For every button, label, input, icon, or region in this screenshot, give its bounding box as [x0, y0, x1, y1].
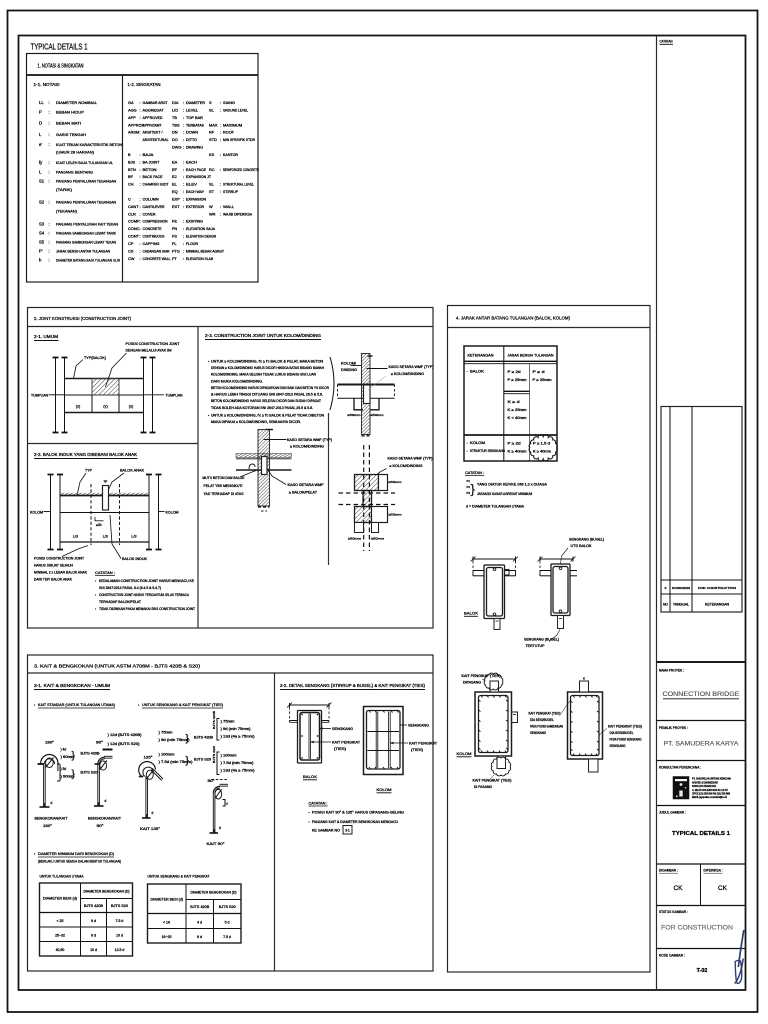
balok section 3-2 kait leader	[311, 741, 331, 743]
svg-text:≥50mm: ≥50mm	[371, 413, 385, 417]
column section right top protrusion	[580, 681, 589, 692]
svg-text:STATUS GAMBAR :: STATUS GAMBAR :	[659, 910, 688, 914]
svg-text::: :	[49, 170, 50, 175]
svg-text::: :	[183, 122, 184, 127]
svg-text:KOLOM/DINDING, MAKA SELISIH TE: KOLOM/DINDING, MAKA SELISIH TEGAK LURUS …	[211, 373, 317, 377]
svg-text:FOR CONSTRUCTION: FOR CONSTRUCTION	[698, 586, 736, 590]
balok section 3-2 sengkang leader	[320, 728, 332, 730]
svg-text::: :	[183, 196, 184, 201]
beam side dashes	[337, 385, 339, 399]
svg-text::: :	[140, 152, 141, 157]
svg-text:EMAIL jagopelan.consultant@co.: EMAIL jagopelan.consultant@co.id	[692, 795, 727, 799]
svg-text:P ≥ 2d: P ≥ 2d	[508, 442, 521, 446]
revision table columns	[669, 407, 671, 613]
svg-text:•: •	[208, 360, 209, 364]
svg-text::: :	[49, 110, 50, 115]
svg-text:d: d	[152, 811, 154, 815]
svg-text:CATATAN: CATATAN	[660, 40, 673, 44]
svg-text:BETON KOLOM/DINDING HARUS SELE: BETON KOLOM/DINDING HARUS SELESAI DICOR …	[211, 399, 321, 403]
svg-text:BJTS S20: BJTS S20	[111, 904, 128, 908]
svg-text::: :	[183, 248, 184, 253]
svg-text::: :	[140, 174, 141, 179]
svg-text::: :	[220, 189, 221, 194]
svg-text:TYP(BALOK): TYP(BALOK)	[84, 356, 106, 360]
svg-text:135°: 135°	[144, 756, 154, 760]
svg-text:TIDAK DIIJINKAN PAKAI MEMAKAI: TIDAK DIIJINKAN PAKAI MEMAKAI SBG CONSTR…	[99, 607, 195, 611]
svg-text:LID: LID	[172, 107, 178, 112]
svg-text:W: W	[209, 204, 213, 209]
svg-text:25~32: 25~32	[55, 933, 65, 937]
svg-text:K: K	[583, 677, 585, 681]
svg-text::: :	[183, 241, 184, 246]
svg-text::: :	[140, 256, 141, 261]
svg-text::: :	[49, 239, 50, 244]
detail 2-1 right support	[143, 357, 145, 433]
svg-text:CK: CK	[674, 885, 684, 892]
column section right stirrup	[571, 696, 600, 756]
svg-text:JARAK BERSIH ANTAR TULANGAN: JARAK BERSIH ANTAR TULANGAN	[56, 249, 110, 254]
detail 2-1 beam lines	[65, 378, 144, 380]
beam top thick line	[338, 384, 395, 386]
svg-text:MUTU BETON DAN BALOK: MUTU BETON DAN BALOK	[203, 476, 246, 480]
title block left divider	[656, 36, 658, 991]
svg-text::: :	[183, 115, 184, 120]
svg-text:STRUKTUR SENGKANG: STRUKTUR SENGKANG	[470, 449, 505, 453]
svg-text::: :	[140, 211, 141, 216]
svg-text:(x): (x)	[76, 405, 81, 409]
svg-text:CAPPING: CAPPING	[143, 242, 160, 246]
balok section 3-2 dashed edges	[289, 707, 291, 722]
svg-text:6 d: 6 d	[91, 919, 96, 923]
svg-text:REINFORCED CONCRETE: REINFORCED CONCRETE	[223, 168, 259, 172]
beam section left hook attachment	[505, 570, 510, 576]
svg-text:WAJIB DIPERIKSA: WAJIB DIPERIKSA	[223, 212, 252, 216]
svg-text:P: P	[39, 110, 42, 115]
svg-text:EXT: EXT	[172, 204, 180, 209]
svg-text:0: 0	[665, 586, 667, 590]
svg-text:KUAT LELEH BAJA TULANGAN UL: KUAT LELEH BAJA TULANGAN UL	[56, 160, 114, 165]
svg-text::: :	[220, 204, 221, 209]
hook 90 ties brackets	[223, 800, 226, 807]
consultant logo	[673, 777, 689, 800]
svg-text:LEVEL: LEVEL	[186, 108, 198, 112]
svg-text:TERBATAS: TERBATAS	[186, 123, 205, 127]
column section left bottom protrusion	[497, 756, 506, 769]
svg-text:BETON: BETON	[143, 168, 157, 172]
svg-text:•: •	[467, 441, 468, 445]
svg-text:b: b	[105, 480, 107, 484]
beam section left stirrup	[487, 568, 503, 617]
beam section left dim line	[473, 558, 516, 560]
column bottom dashes	[362, 435, 371, 437]
svg-text:KETERANGAN: KETERANGAN	[705, 603, 730, 607]
svg-text:JL. MELATI RAYA KEBAYORAN NO.: JL. MELATI RAYA KEBAYORAN NO. 128 JKT	[692, 788, 728, 792]
svg-text:1-2. SINGKATAN: 1-2. SINGKATAN	[128, 82, 161, 87]
panel 2 header line	[28, 326, 434, 328]
svg-text:S1: S1	[39, 178, 45, 183]
svg-text:RC: RC	[209, 167, 215, 172]
svg-text:K ≥ d: K ≥ d	[508, 400, 520, 404]
svg-text:B: B	[128, 152, 131, 157]
svg-text:ARSITEKTURAL: ARSITEKTURAL	[143, 138, 169, 142]
svg-text:OFFICE (021) 5550 8899 FAX (02: OFFICE (021) 5550 8899 FAX (021) 5550 88…	[692, 791, 730, 795]
svg-text:CONC: CONC	[128, 226, 140, 231]
svg-text:DIAMETER BENGKOKAN (D): DIAMETER BENGKOKAN (D)	[191, 890, 237, 894]
svg-text:DN: DN	[172, 130, 178, 135]
svg-text:KASO SETARA WMF (TYP): KASO SETARA WMF (TYP)	[287, 438, 332, 442]
svg-text:BJTS S20: BJTS S20	[81, 771, 98, 775]
svg-text::: :	[49, 121, 50, 126]
svg-text:≥50mm: ≥50mm	[389, 480, 403, 484]
svg-text:≥2b: ≥2b	[96, 523, 102, 527]
svg-text:EXPANSION: EXPANSION	[186, 197, 206, 201]
column section left stirrup	[479, 696, 509, 753]
svg-text:01/06/2023: 01/06/2023	[672, 586, 690, 590]
kolom section 3-2 sengkang leader	[400, 724, 407, 726]
svg-text:d = DIAMETER TULANGAN UTAMA: d = DIAMETER TULANGAN UTAMA	[466, 505, 525, 509]
svg-text:SENGKANG: SENGKANG	[332, 727, 353, 731]
svg-text:PANJANG SAMBUNGAN LEWAT TARIK: PANJANG SAMBUNGAN LEWAT TARIK	[56, 231, 116, 236]
svg-text:< 16: < 16	[163, 920, 170, 924]
svg-text:DIAMETER BATANG BAJA TULANGAN: DIAMETER BATANG BAJA TULANGAN ULIR	[56, 258, 120, 263]
plan bottom right white rect	[372, 507, 388, 523]
svg-text:CW: CW	[128, 256, 135, 261]
svg-text:(x): (x)	[129, 405, 134, 409]
svg-text:PADA POSISI SENGKANG: PADA POSISI SENGKANG	[610, 738, 642, 742]
svg-text:DIA BESI/BUGEL: DIA BESI/BUGEL	[610, 731, 634, 735]
svg-text:SENGKANG: SENGKANG	[530, 731, 546, 735]
svg-text:UNTUK TULANGAN UTAMA: UNTUK TULANGAN UTAMA	[40, 875, 84, 879]
svg-text:KASO SETARA WMF (TYP): KASO SETARA WMF (TYP)	[388, 457, 433, 461]
hook 180 vertical bar	[43, 764, 45, 807]
svg-text:90°: 90°	[208, 779, 216, 783]
svg-text:≥ KOLOM/DINDING: ≥ KOLOM/DINDING	[390, 464, 423, 468]
svg-text::: :	[183, 167, 184, 172]
svg-text:MINIMAL BESAR AGRGT: MINIMAL BESAR AGRGT	[186, 249, 225, 253]
svg-text:BJTS 420B: BJTS 420B	[190, 905, 210, 909]
svg-text::: :	[140, 130, 141, 135]
svg-text:TERTUTUP: TERTUTUP	[526, 644, 546, 648]
svg-text:KS: KS	[209, 152, 215, 157]
svg-text::: :	[140, 182, 141, 187]
svg-text::: :	[49, 249, 50, 254]
svg-text:KODE GAMBAR :: KODE GAMBAR :	[659, 954, 685, 958]
svg-text:BALOK: BALOK	[303, 774, 317, 779]
hook 90 vertical bar	[97, 764, 99, 806]
svg-text:PELAT YBS MENGIKUTI: PELAT YBS MENGIKUTI	[204, 484, 243, 488]
svg-text:PT. SAMUDERA KARYA: PT. SAMUDERA KARYA	[664, 741, 740, 748]
svg-text:KEDALAMAN CONSTRUCTION JOINT H: KEDALAMAN CONSTRUCTION JOINT HARUS MENGA…	[99, 579, 195, 583]
svg-text:CONTINUOUS: CONTINUOUS	[143, 235, 165, 239]
svg-text:KAIT PENGIKAT: KAIT PENGIKAT	[332, 741, 361, 745]
svg-text:•: •	[95, 607, 96, 611]
svg-text:BTN: BTN	[128, 167, 136, 172]
plan bottom tabs	[355, 523, 364, 533]
svg-text:KAIT PENGIKAT (TIES): KAIT PENGIKAT (TIES)	[462, 674, 501, 678]
svg-text::: :	[183, 130, 184, 135]
svg-text:P ≥ d: P ≥ d	[533, 370, 545, 374]
svg-text:(TARIK): (TARIK)	[56, 187, 73, 192]
panel 3 vertical divider	[274, 673, 276, 971]
svg-text:•: •	[467, 449, 468, 453]
svg-text::: :	[49, 160, 50, 165]
divider above kode gambar	[657, 948, 746, 950]
hook 135 bottom tick	[142, 817, 151, 819]
svg-text:YAD TERHADAP DI ATAS: YAD TERHADAP DI ATAS	[204, 492, 245, 496]
beam section right web	[550, 564, 552, 616]
svg-text:EXISTING: EXISTING	[186, 220, 203, 224]
svg-text:KAIT STANDAR (UNTUK TULANGAN U: KAIT STANDAR (UNTUK TULANGAN UTAMA)	[38, 702, 116, 707]
svg-text:BJTS S20: BJTS S20	[212, 745, 216, 763]
kolom section 3-2 vertical ties	[375, 712, 377, 769]
svg-text::: :	[183, 189, 184, 194]
svg-text:POSISI KAIT 90° & 135° HARUS D: POSISI KAIT 90° & 135° HARUS DIPASANG-SE…	[312, 811, 404, 815]
svg-text::: :	[183, 219, 184, 224]
svg-text:CONNECTION BRIDGE: CONNECTION BRIDGE	[663, 691, 740, 698]
svg-text:BF: BF	[128, 174, 134, 179]
svg-text:TYP: TYP	[85, 469, 93, 473]
panel 3 frame KAIT & BENGKOKAN	[28, 655, 434, 971]
column top tick	[368, 355, 373, 357]
svg-text:D: D	[39, 121, 42, 126]
hook 90 ties bottom tick	[210, 832, 219, 834]
hook 90 bottom tick	[94, 805, 104, 807]
plan mid joint hatched	[363, 491, 372, 507]
svg-text::: :	[49, 100, 50, 105]
svg-text:KOLOM: KOLOM	[30, 510, 43, 514]
svg-text:DITTO: DITTO	[186, 138, 197, 142]
svg-text:WALL: WALL	[223, 205, 234, 209]
svg-text:SENGKANG (BUGEL): SENGKANG (BUGEL)	[524, 638, 559, 642]
svg-text:BEBAN MATI: BEBAN MATI	[56, 121, 81, 126]
svg-text::: :	[140, 122, 141, 127]
svg-text:≥50mm: ≥50mm	[348, 413, 362, 417]
svg-text:) 13d (4a ≥ 75mm): ) 13d (4a ≥ 75mm)	[221, 769, 255, 773]
svg-text:TOP BAR: TOP BAR	[186, 116, 203, 120]
kolom section 3-2 outer	[364, 707, 404, 775]
svg-text::: :	[49, 231, 50, 236]
svg-text:HARUS DIBUAT SEJAUH: HARUS DIBUAT SEJAUH	[34, 564, 73, 568]
column section left rebar ticks	[481, 696, 483, 698]
svg-text:DIAMETER BESI (d): DIAMETER BESI (d)	[151, 897, 184, 901]
svg-text:P ≥ 25mm: P ≥ 25mm	[508, 378, 527, 382]
svg-text:EQ: EQ	[172, 189, 178, 194]
svg-text:ROOF: ROOF	[223, 131, 235, 135]
svg-text:d: d	[219, 826, 221, 830]
svg-text:AGGREGAT: AGGREGAT	[143, 108, 165, 112]
svg-text:S3: S3	[39, 222, 45, 227]
svg-text:KOLOM: KOLOM	[457, 751, 472, 756]
svg-text:UNTUK ≥ KOLOM/DINDING, f'c ≥ f: UNTUK ≥ KOLOM/DINDING, f'c ≥ f'c BALOK &…	[211, 360, 324, 364]
svg-text:DIGAMBAR :: DIGAMBAR :	[659, 869, 678, 873]
balok section 3-2 flange	[290, 720, 298, 722]
divider below consultant	[657, 805, 746, 807]
svg-text:LL: LL	[39, 100, 44, 105]
svg-text::: :	[140, 196, 141, 201]
beam section right bottom protrusion	[558, 616, 564, 629]
svg-text:FLOOR: FLOOR	[186, 242, 198, 246]
svg-text:(TIES): (TIES)	[411, 748, 423, 752]
panel 1 header line	[27, 74, 259, 76]
svg-text:DO: DO	[172, 137, 178, 142]
balok section 3-2 dim line	[290, 704, 330, 706]
wall top leader and label	[264, 439, 287, 441]
svg-text:S2: S2	[39, 200, 45, 205]
svg-text:•: •	[309, 820, 310, 824]
panel 1 column divider	[122, 75, 124, 282]
svg-text:KOLOM: KOLOM	[166, 510, 179, 514]
svg-text:3-2. DETAIL SENGKANG (STIRRUP: 3-2. DETAIL SENGKANG (STIRRUP & BUGEL) &…	[280, 683, 426, 688]
svg-text::: :	[220, 107, 221, 112]
below-beam bracket left	[354, 398, 363, 410]
detail 2-2 beam top with form hatch	[60, 493, 149, 496]
column section right bottom protrusion	[589, 759, 599, 772]
svg-text::: :	[183, 137, 184, 142]
svg-text:ST: ST	[209, 189, 215, 194]
panel 2 frame JOINT KONSTRUKSI	[28, 308, 434, 629]
svg-text:CADANGAN SIAR: CADANGAN SIAR	[143, 249, 170, 253]
svg-text:COLUMN: COLUMN	[143, 197, 159, 201]
svg-text:CONCRETE WALL: CONCRETE WALL	[143, 257, 171, 261]
below-beam bracket right	[371, 398, 380, 410]
divider below drawing title	[657, 863, 746, 865]
svg-text:BJS: BJS	[128, 159, 136, 164]
svg-text:DIAMETER NOMINAL: DIAMETER NOMINAL	[56, 100, 98, 105]
svg-text:DIAMETER BENGKOKAN (D): DIAMETER BENGKOKAN (D)	[84, 889, 130, 893]
joint rect at column	[364, 385, 371, 404]
svg-text:FT: FT	[172, 256, 177, 261]
svg-text:S4: S4	[39, 231, 45, 236]
column section right outer	[568, 692, 603, 759]
svg-text::: :	[140, 115, 141, 120]
beam section left flange	[473, 570, 484, 572]
beam section left dashed edges	[472, 561, 474, 576]
svg-text:BENGKOKAN/KAIT: BENGKOKAN/KAIT	[88, 817, 122, 821]
svg-text:KETERANGAN: KETERANGAN	[468, 354, 494, 358]
svg-text:(TIES): (TIES)	[334, 747, 346, 751]
svg-text:CATATAN :: CATATAN :	[95, 570, 115, 575]
svg-text:1-1. NOTASI: 1-1. NOTASI	[34, 82, 60, 87]
svg-text:T-02: T-02	[697, 968, 708, 974]
svg-text:DIAMETER: DIAMETER	[186, 101, 205, 105]
svg-text:16~25: 16~25	[162, 935, 172, 939]
svg-text:) 100mm: ) 100mm	[221, 754, 237, 758]
beam section right flange	[540, 570, 551, 572]
svg-text::: :	[183, 256, 184, 261]
svg-text::: :	[140, 241, 141, 246]
svg-text:WR: WR	[209, 211, 216, 216]
svg-text::: :	[183, 174, 184, 179]
svg-text:GARIS TENGAH: GARIS TENGAH	[56, 132, 86, 137]
svg-text:DENGAN ≥ KOLOM/DINDING HARUS D: DENGAN ≥ KOLOM/DINDING HARUS DICOR HINGG…	[211, 366, 325, 370]
svg-text:90°: 90°	[97, 824, 105, 828]
divider below CK row	[657, 905, 746, 907]
svg-text:UNTUK SENGKANG & KAIT PENGIKAT: UNTUK SENGKANG & KAIT PENGIKAT	[148, 875, 211, 879]
svg-text:K < 40mm: K < 40mm	[508, 416, 527, 420]
beam section left web	[483, 565, 485, 619]
svg-text:12.5 d: 12.5 d	[115, 948, 125, 952]
svg-text:•: •	[467, 370, 468, 374]
column section right rebar ticks	[573, 696, 575, 698]
svg-text:SL: SL	[209, 107, 215, 112]
svg-text::: :	[220, 130, 221, 135]
svg-text::: :	[183, 226, 184, 231]
svg-text:DI PASANG: DI PASANG	[474, 785, 493, 789]
svg-text:BAJA: BAJA	[143, 153, 155, 157]
svg-text:) 9d (min 75mm): ) 9d (min 75mm)	[221, 727, 251, 731]
svg-text:JUDUL GAMBAR :: JUDUL GAMBAR :	[659, 811, 686, 815]
svg-text:90°: 90°	[96, 741, 104, 745]
detail 2-1 construction joint hatch	[92, 379, 119, 396]
svg-text:KAIT PENGIKAT (TIES): KAIT PENGIKAT (TIES)	[473, 779, 512, 783]
svg-text:40,50: 40,50	[56, 948, 65, 952]
svg-text:DIAMETER BESI (d): DIAMETER BESI (d)	[43, 896, 77, 900]
plan bottom block hatched	[355, 507, 372, 523]
svg-text:BEBAN HIDUP: BEBAN HIDUP	[56, 110, 84, 115]
beam section right stirrup	[553, 567, 568, 614]
svg-text:P ≥ 25mm: P ≥ 25mm	[533, 378, 552, 382]
svg-text:FS: FS	[172, 234, 177, 239]
svg-text:3-1. KAIT & BENGKOKAN - UMUM: 3-1. KAIT & BENGKOKAN - UMUM	[34, 683, 110, 688]
detail 2-2 beam bottom line	[60, 541, 149, 543]
svg-text:CONT: CONT	[128, 234, 140, 239]
svg-text:DOWN: DOWN	[186, 131, 198, 135]
svg-text:2-1. UMUM: 2-1. UMUM	[34, 334, 59, 339]
svg-text:EXTERIOR: EXTERIOR	[186, 205, 204, 209]
svg-text:DARI MUKA KOLOM/DINDING.: DARI MUKA KOLOM/DINDING.	[211, 379, 263, 383]
revision cloud in table	[529, 435, 557, 461]
column section left outer	[475, 692, 512, 756]
svg-text:≥50mm: ≥50mm	[348, 537, 362, 541]
svg-text:) 4d: ) 4d	[61, 748, 67, 752]
spacing table col dividers	[503, 346, 505, 461]
svg-text::: :	[140, 248, 141, 253]
hook 180 bottom tick	[40, 806, 50, 808]
svg-text:EF: EF	[172, 167, 178, 172]
svg-text:P': P'	[39, 249, 43, 254]
svg-text::: :	[140, 100, 141, 105]
svg-text:ELEVATION DESGN: ELEVATION DESGN	[186, 235, 216, 239]
beam section right dashed edges	[539, 561, 541, 576]
svg-text::: :	[183, 107, 184, 112]
svg-text::: :	[140, 234, 141, 239]
svg-text:KE GAMBAR NO: KE GAMBAR NO	[312, 829, 340, 833]
svg-text:MAX: MAX	[209, 122, 218, 127]
svg-text:DIPASANG: DIPASANG	[463, 681, 482, 685]
svg-text:PANJANG BENTANG: PANJANG BENTANG	[56, 170, 93, 175]
svg-text:BALOK: BALOK	[464, 611, 478, 616]
svg-text::: :	[220, 152, 221, 157]
svg-text:KAIT PENGIKAT (TIES): KAIT PENGIKAT (TIES)	[529, 712, 561, 716]
svg-text:DWG: DWG	[172, 145, 182, 150]
svg-text:STRUKTURAL LEVEL: STRUKTURAL LEVEL	[223, 183, 254, 187]
svg-text:POSISI CONSTRUCTION JOINT: POSISI CONSTRUCTION JOINT	[126, 342, 181, 346]
kolom section 3-2 rebar ticks	[369, 711, 371, 713]
svg-text:3-1: 3-1	[345, 829, 350, 833]
svg-text:EXPANSION JT: EXPANSION JT	[186, 175, 212, 179]
svg-text:KAIT PENGIKAT: KAIT PENGIKAT	[409, 742, 438, 746]
svg-text::: :	[140, 107, 141, 112]
svg-text:ARSITEK & ENGINEERING: ARSITEK & ENGINEERING	[692, 781, 718, 785]
svg-text:EXP: EXP	[172, 196, 180, 201]
panel 4 header line	[448, 327, 651, 329]
svg-text::: :	[140, 159, 141, 164]
svg-text:DRAWING: DRAWING	[186, 146, 203, 150]
svg-text::: :	[140, 226, 141, 231]
svg-text:BJTS 420B: BJTS 420B	[194, 736, 213, 740]
svg-text:FTG: FTG	[172, 248, 180, 253]
svg-text:BALOK: BALOK	[470, 370, 485, 374]
